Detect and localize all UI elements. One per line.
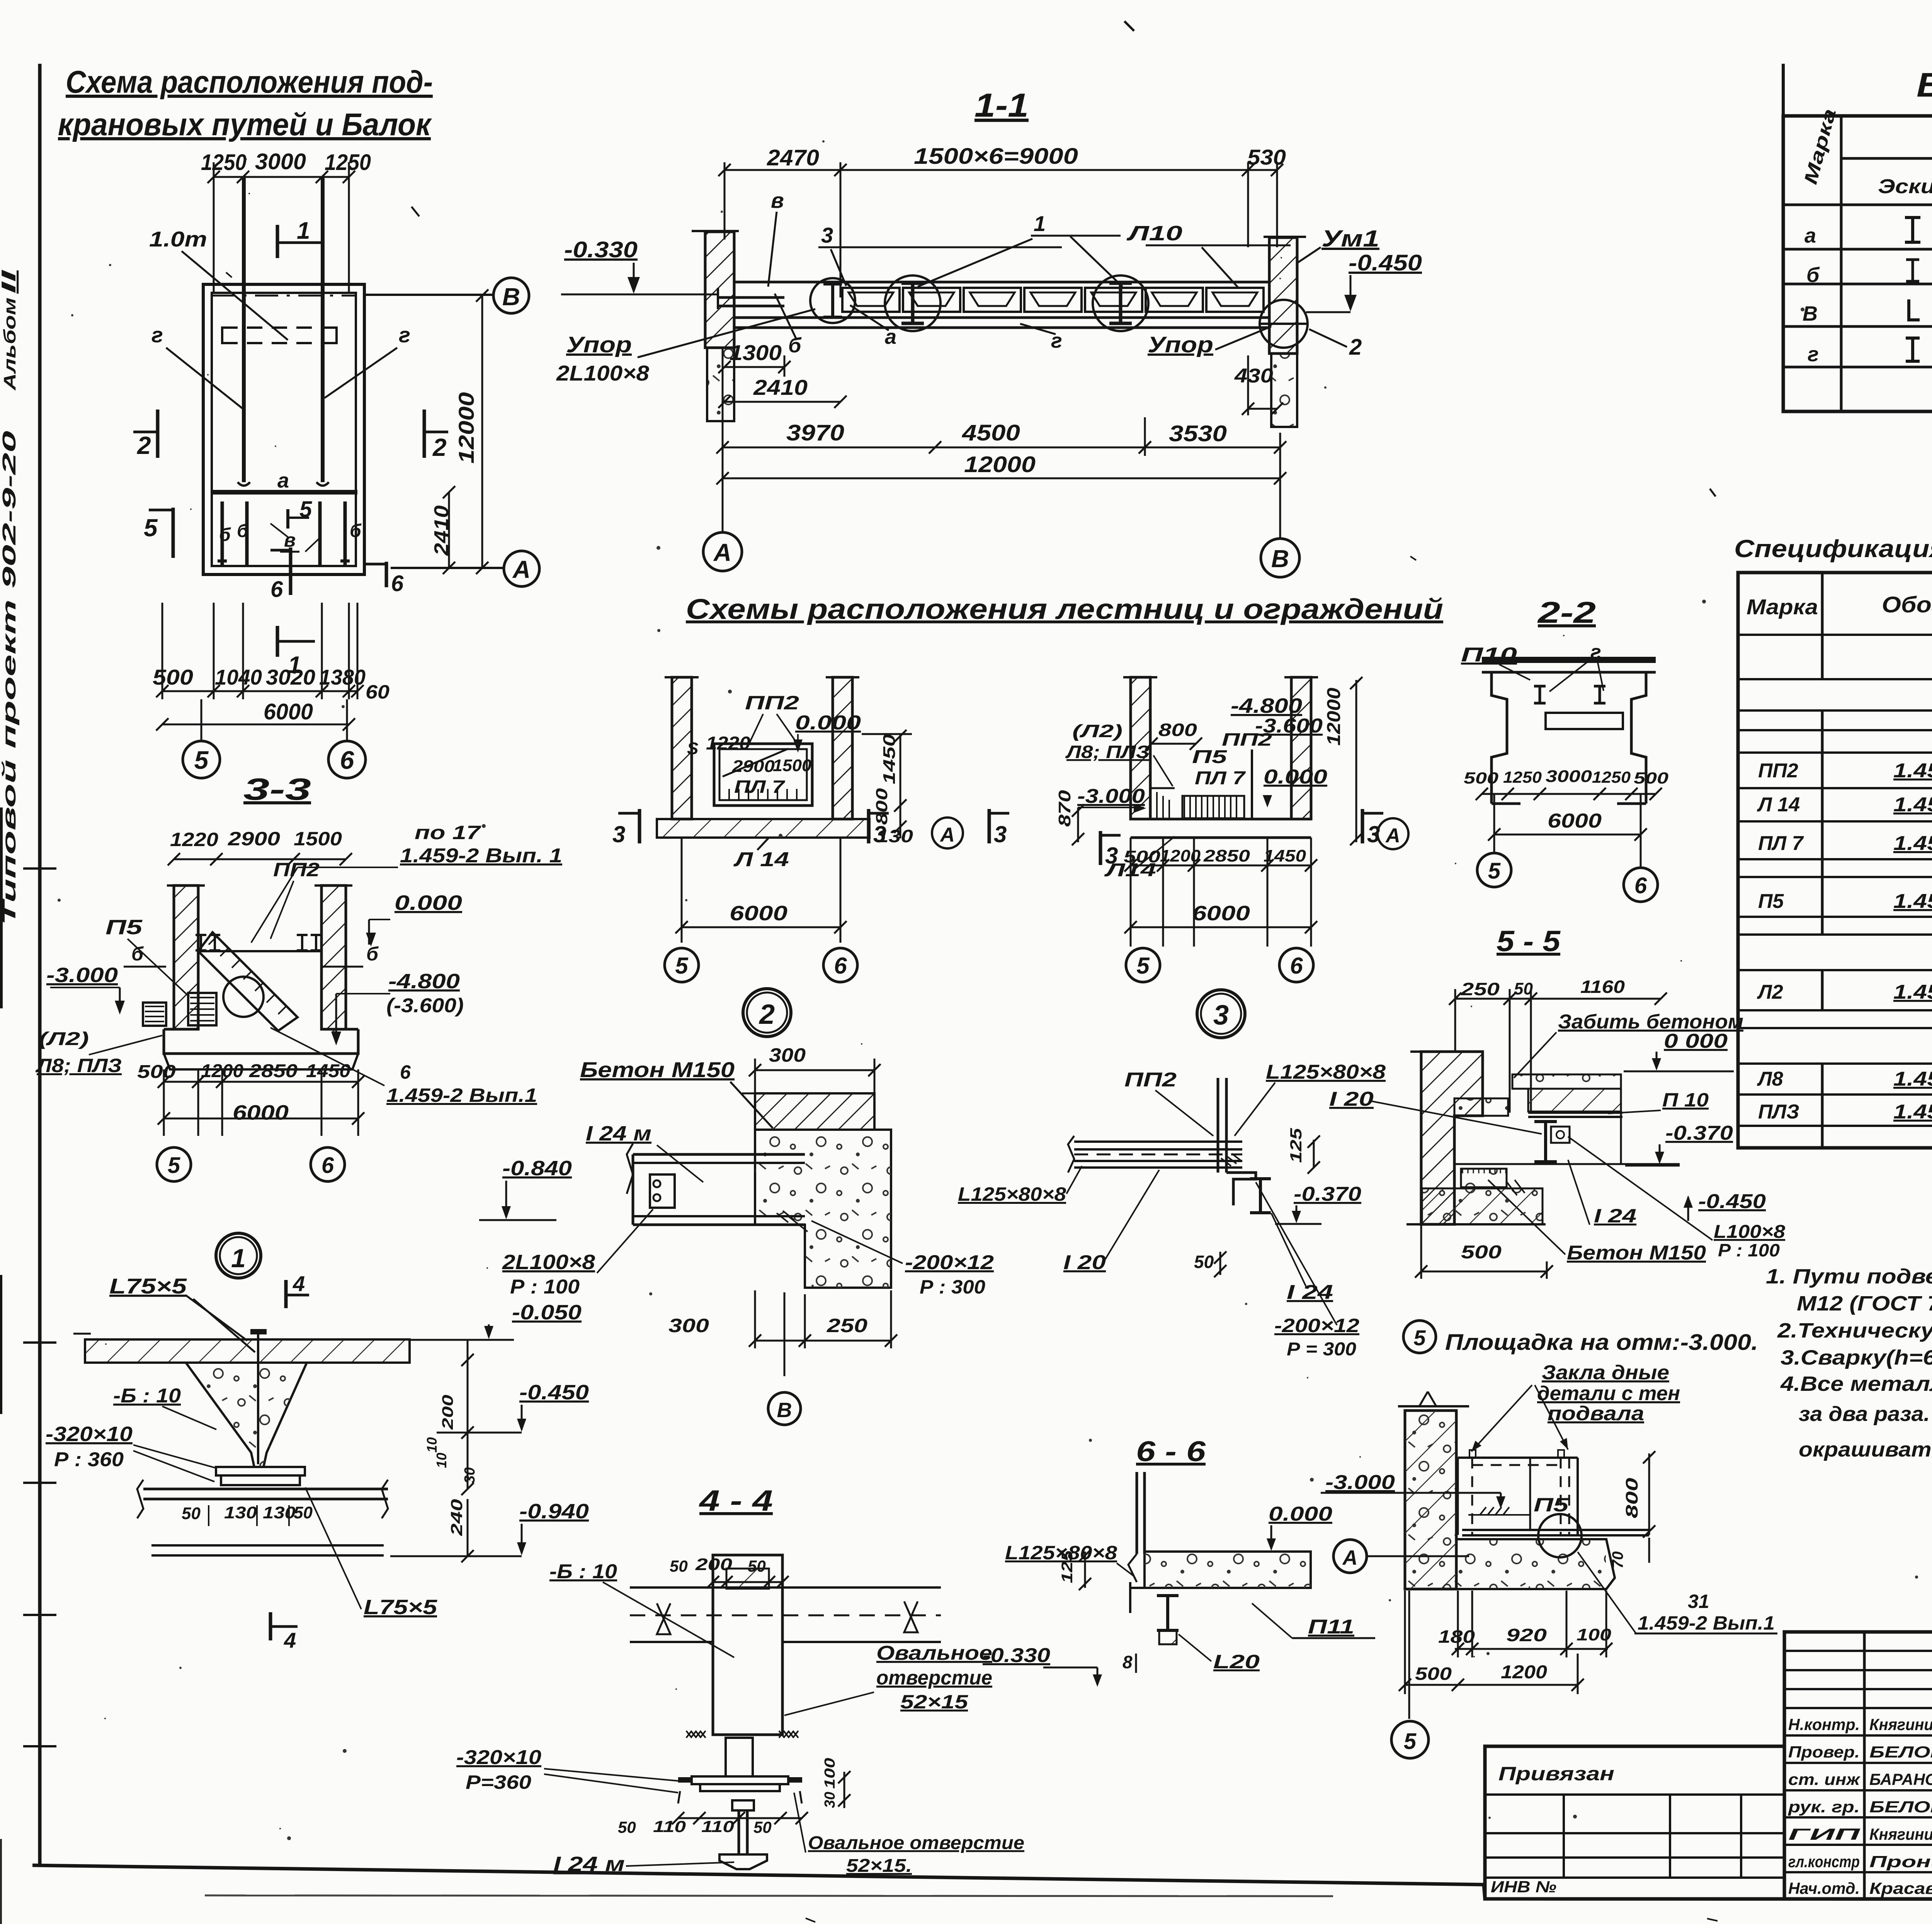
svg-text:0.000: 0.000 — [795, 712, 861, 734]
svg-text:Провер.: Провер. — [1788, 1743, 1860, 1761]
svg-text:БАРАНОВА: БАРАНОВА — [1869, 1770, 1932, 1788]
detail 1: labels -Б10 -320x10 е360 dims — [46, 1385, 437, 1619]
svg-text:0 000: 0 000 — [1664, 1030, 1728, 1052]
svg-text:52×15: 52×15 — [900, 1691, 968, 1713]
svg-text:12000: 12000 — [1324, 688, 1344, 746]
svg-text:50: 50 — [618, 1818, 636, 1836]
svg-text:500: 500 — [1464, 769, 1498, 787]
svg-text:6 - 6: 6 - 6 — [1136, 1435, 1206, 1467]
detail 1: circle mark 1 — [216, 1233, 261, 1278]
svg-text:в: в — [771, 188, 784, 212]
svg-text:1.459-2,: 1.459-2, — [1893, 832, 1932, 855]
svg-text:100: 100 — [822, 1758, 838, 1789]
plan view section mark 5 left — [144, 508, 173, 558]
svg-text:крановых путей и Балок: крановых путей и Балок — [58, 107, 432, 142]
svg-text:6000: 6000 — [264, 699, 313, 724]
plan view section mark 1 (bottom) — [277, 626, 315, 678]
svg-text:А: А — [939, 824, 955, 846]
section 1-1 bottom dims 3970 4500 3530 — [716, 348, 1286, 487]
svg-text:б: б — [131, 943, 144, 965]
svg-text:Упор: Упор — [566, 332, 632, 357]
svg-text:110: 110 — [653, 1817, 686, 1836]
svg-text:12000: 12000 — [964, 452, 1036, 477]
detail 1: section mark 4 bottom — [270, 1612, 298, 1652]
svg-text:Р : 300: Р : 300 — [920, 1276, 985, 1298]
svg-text:Княгиничев: Княгиничев — [1869, 1825, 1932, 1843]
svg-text:1.459-2 Вып.1: 1.459-2 Вып.1 — [1638, 1612, 1775, 1634]
svg-text:10: 10 — [424, 1437, 440, 1453]
svg-text:I 24 м: I 24 м — [553, 1853, 625, 1876]
svg-text:L75×5: L75×5 — [109, 1274, 187, 1298]
svg-text:50: 50 — [753, 1818, 772, 1836]
svg-text:Л2: Л2 — [1757, 981, 1783, 1003]
svg-text:-4.800: -4.800 — [388, 970, 460, 993]
plan view crane monorail beam (dashed) — [222, 328, 337, 343]
sheet bottom frame line — [32, 1865, 1932, 1899]
svg-text:1.459-2,: 1.459-2, — [1893, 981, 1932, 1003]
table Спецификация: row П5 — [1758, 876, 1932, 915]
svg-text:1300: 1300 — [730, 340, 782, 365]
detail B: labels Бетон М150 and 300 — [580, 1044, 881, 1128]
svg-text:6: 6 — [834, 953, 847, 979]
svg-text:5: 5 — [1413, 1326, 1426, 1350]
section 5-5: concrete fill under beam and base floor — [1406, 1169, 1546, 1224]
svg-text:2.Техническую спецификацию ста: 2.Техническую спецификацию стали см.на л… — [1777, 1319, 1932, 1342]
svg-text:1.459-2,: 1.459-2, — [1893, 1101, 1932, 1123]
left margin rotated stamp text: Типовой проект 902-9-20 Альбом II — [0, 269, 20, 925]
svg-text:240: 240 — [447, 1499, 466, 1536]
section 1-1 label 3 with leader — [818, 223, 1062, 286]
platform detail: labels Закладные детали стен подвала — [1471, 1361, 1680, 1451]
heading: Схемы расположения лестниц и ограждений — [686, 593, 1443, 625]
svg-text:2: 2 — [137, 432, 151, 459]
svg-text:1.459-2,: 1.459-2, — [1893, 890, 1932, 913]
svg-text:I 24 м: I 24 м — [586, 1122, 651, 1145]
table Спецификация: row Л8 — [1757, 1068, 1932, 1090]
svg-text:П5: П5 — [1534, 1494, 1569, 1516]
svg-text:130: 130 — [263, 1503, 296, 1522]
svg-text:ПЛЗ: ПЛЗ — [1758, 1101, 1799, 1123]
section 5-5: labels Забить бетоном 0.000 — [1514, 1011, 1743, 1078]
svg-text:300: 300 — [769, 1044, 806, 1066]
scheme 3: left dim 870 and right dim 12000 — [1055, 677, 1362, 845]
svg-text:-0.330: -0.330 — [983, 1644, 1050, 1667]
svg-text:по 17: по 17 — [415, 822, 481, 843]
plan view bottom dim 6000 — [156, 699, 355, 731]
svg-text:ПП2: ПП2 — [1124, 1069, 1177, 1091]
svg-text:Обозначение: Обозначение — [1882, 592, 1932, 617]
svg-text:-0.940: -0.940 — [519, 1500, 589, 1523]
svg-text:50: 50 — [670, 1557, 688, 1575]
svg-text:3-3: 3-3 — [243, 772, 311, 806]
svg-text:1500×6=9000: 1500×6=9000 — [914, 144, 1078, 169]
svg-text:3: 3 — [1213, 1000, 1229, 1031]
svg-text:1: 1 — [1034, 211, 1046, 236]
svg-text:1200: 1200 — [1160, 846, 1201, 865]
detail B: I24м beam with end plate — [627, 1144, 805, 1225]
section 1-1 I-beam hanger 2 (circled) — [1093, 275, 1148, 331]
svg-text:-0.370: -0.370 — [1665, 1122, 1733, 1144]
svg-text:Л 14: Л 14 — [733, 848, 789, 871]
svg-text:г: г — [151, 323, 163, 347]
svg-text:П 10: П 10 — [1662, 1089, 1709, 1111]
svg-text:2410: 2410 — [430, 505, 453, 556]
svg-text:-0.450: -0.450 — [519, 1381, 589, 1404]
section 3-3: top dims 1220 2900 1500 — [168, 828, 352, 865]
svg-text:430: 430 — [1234, 365, 1273, 387]
svg-text:920: 920 — [1506, 1625, 1547, 1645]
table Спецификация: row Л2 — [1757, 981, 1932, 1003]
svg-text:I 20: I 20 — [1063, 1251, 1106, 1274]
svg-text:-200×12: -200×12 — [905, 1251, 994, 1274]
svg-text:5: 5 — [299, 497, 312, 522]
svg-text:подвала: подвала — [1548, 1402, 1644, 1425]
svg-text:125: 125 — [1059, 1550, 1076, 1583]
svg-text:Закла дные: Закла дные — [1542, 1361, 1669, 1384]
scheme 2: section marks 3 and circle А — [612, 809, 1009, 848]
svg-text:500: 500 — [1634, 769, 1668, 787]
svg-text:Эскиз: Эскиз — [1878, 175, 1932, 198]
notes paragraph 1-4 — [1766, 1265, 1932, 1461]
svg-text:2470: 2470 — [767, 145, 819, 170]
svg-text:Р : 360: Р : 360 — [54, 1448, 124, 1471]
svg-text:П11: П11 — [1308, 1616, 1354, 1638]
svg-text:Упор: Упор — [1148, 332, 1213, 357]
section 3-3: stair flight and landing — [143, 932, 321, 1031]
svg-text:130: 130 — [224, 1503, 257, 1522]
svg-text:-0.450: -0.450 — [1698, 1190, 1766, 1213]
section 1-1 right wall (hatched) — [1264, 237, 1306, 427]
plan view top dash-dot line — [212, 295, 355, 297]
svg-text:5: 5 — [168, 1153, 180, 1178]
table Ведомость элементов: row а — [1804, 218, 1932, 247]
svg-text:Л 14: Л 14 — [1757, 794, 1800, 816]
plan view lower beams б — [218, 501, 350, 565]
svg-text:I 20: I 20 — [1329, 1088, 1374, 1110]
svg-text:б: б — [1806, 263, 1820, 287]
table Спецификация: row Л14 — [1757, 794, 1932, 816]
section 1-1 dim 1300 — [718, 340, 791, 377]
section 1-1 title — [975, 87, 1029, 124]
scheme 2: right vertical dims 1450 800 130 — [862, 730, 913, 846]
svg-text:1220: 1220 — [170, 829, 218, 850]
platform detail: bottom dims 180 920 100 / 500 1200 — [1399, 1591, 1612, 1694]
scheme 2: dim 6000 and axis circles — [665, 838, 857, 982]
svg-text:б: б — [219, 525, 231, 545]
svg-text:-0.370: -0.370 — [1294, 1183, 1361, 1205]
svg-text:II: II — [0, 269, 20, 294]
svg-text:1040: 1040 — [215, 665, 262, 689]
table Спецификация: grid — [1738, 573, 1932, 1148]
svg-text:5 - 5: 5 - 5 — [1497, 925, 1561, 958]
svg-text:4 - 4: 4 - 4 — [699, 1484, 773, 1517]
table Спецификация: row ПЛЗ — [1758, 1087, 1932, 1125]
svg-text:ст. инж: ст. инж — [1788, 1770, 1861, 1788]
svg-text:ПП2: ПП2 — [1222, 729, 1272, 750]
scheme 3: right section marks 3 and circle А — [1100, 809, 1408, 869]
section 5-5: title — [1497, 925, 1561, 958]
svg-text:1200: 1200 — [1501, 1662, 1547, 1683]
svg-text:10: 10 — [434, 1453, 449, 1468]
section 1-1 I-beam hanger 1 (circled) — [885, 275, 940, 331]
svg-text:1.459-2,: 1.459-2, — [1893, 1068, 1932, 1090]
section 1-1 top dims 2470 / 1500x6=9000 / 530 — [718, 144, 1286, 297]
svg-text:1. Пути подвесного крана крепя: 1. Пути подвесного крана крепятся болтам… — [1766, 1265, 1932, 1288]
svg-text:12000: 12000 — [454, 392, 478, 464]
svg-text:4500: 4500 — [962, 420, 1020, 445]
svg-text:2: 2 — [432, 433, 447, 461]
svg-text:500: 500 — [1415, 1664, 1452, 1684]
svg-text:52×15.: 52×15. — [846, 1856, 912, 1876]
scheme 3: stair details — [1151, 750, 1252, 819]
svg-text:Л10: Л10 — [1126, 222, 1182, 245]
svg-text:3020: 3020 — [266, 665, 315, 689]
svg-text:г: г — [1590, 641, 1601, 663]
detail PP2: railing post and rails — [1068, 1078, 1242, 1173]
svg-text:Бетон М150: Бетон М150 — [1567, 1242, 1706, 1264]
svg-text:250: 250 — [827, 1315, 867, 1336]
svg-text:3.Сварку(h=6мм) производить эл: 3.Сварку(h=6мм) производить электродами … — [1781, 1346, 1932, 1369]
svg-text:1-1: 1-1 — [975, 87, 1029, 124]
section 1-1 left wall (hatched) — [692, 231, 739, 421]
section 1-1 upor bracket left detail circle — [810, 278, 855, 323]
svg-text:1: 1 — [231, 1244, 246, 1273]
section 1-1 label Упор 2L100x8 left — [556, 309, 815, 385]
svg-text:(-3.600): (-3.600) — [386, 994, 464, 1017]
svg-text:50: 50 — [294, 1503, 313, 1522]
platform detail: axis circle 5 below — [1391, 1591, 1429, 1758]
svg-text:окрашивать.: окрашивать. — [1799, 1438, 1932, 1461]
svg-text:а: а — [277, 469, 289, 492]
svg-text:2L100×8: 2L100×8 — [556, 361, 650, 385]
svg-text:(Л2): (Л2) — [39, 1029, 89, 1049]
section 1-1 label г with leader — [1020, 324, 1062, 352]
platform detail: level -3.000 and circle А — [1321, 1471, 1530, 1573]
table Ведомость элементов: grid — [1783, 64, 1932, 411]
section 1-1 bottom dim 12000 — [716, 452, 1286, 484]
svg-text:Красавин: Красавин — [1869, 1879, 1932, 1897]
svg-text:2410: 2410 — [753, 375, 808, 399]
svg-text:2850: 2850 — [1203, 846, 1250, 865]
svg-text:2850: 2850 — [249, 1061, 298, 1081]
plan view bottom dims 500 1040 3020 1380 60 — [153, 603, 389, 703]
svg-text:А: А — [713, 539, 731, 566]
svg-text:L125×80×8: L125×80×8 — [1266, 1061, 1386, 1083]
svg-text:Р=360: Р=360 — [466, 1771, 531, 1793]
svg-text:L100×8: L100×8 — [1714, 1222, 1785, 1242]
section 1-1 dim 2410 — [718, 375, 847, 408]
section 1-1 label 2 with leader — [1309, 329, 1362, 360]
svg-text:-Б : 10: -Б : 10 — [549, 1560, 617, 1583]
svg-text:3000: 3000 — [1546, 767, 1592, 786]
section 3-3: axis circles 5 and 6 — [157, 1147, 345, 1181]
detail B: label I24м — [586, 1122, 703, 1182]
svg-text:Л8: Л8 — [1757, 1068, 1783, 1090]
svg-text:100: 100 — [1577, 1625, 1612, 1644]
section 3-3: bottom dims 500 1200 2850 1450 / 6000 — [137, 1061, 364, 1136]
scheme 2: big circle 2 — [743, 989, 791, 1037]
svg-text:5: 5 — [675, 953, 689, 979]
svg-text:180: 180 — [1438, 1627, 1475, 1647]
svg-text:4: 4 — [293, 1271, 305, 1296]
svg-text:Марка: Марка — [1747, 595, 1818, 619]
svg-text:4: 4 — [284, 1628, 296, 1652]
svg-text:1250: 1250 — [1592, 768, 1631, 786]
svg-text:125: 125 — [1287, 1128, 1305, 1163]
section 5-5: top dims 250 50 1160 — [1449, 977, 1667, 1113]
svg-text:В: В — [1271, 545, 1289, 573]
detail B: hatched slab and concrete block — [742, 1093, 891, 1288]
table Спецификация: title — [1734, 535, 1932, 563]
table Спецификация: row ПЛ7 — [1758, 818, 1932, 857]
svg-text:4.Все металлоконструкции окрас: 4.Все металлоконструкции окрасить маслян… — [1780, 1372, 1932, 1395]
svg-text:870: 870 — [1055, 790, 1074, 827]
svg-text:6: 6 — [391, 571, 404, 596]
section 5-5: circle 5 and caption Площадка на отм -3.000 — [1403, 1321, 1758, 1355]
svg-text:70: 70 — [1609, 1552, 1626, 1569]
svg-text:Пронин: Пронин — [1869, 1853, 1932, 1871]
detail PP2: dims 125 50 and levels — [958, 1128, 1361, 1360]
detail B: level -0.840 — [479, 1157, 572, 1220]
svg-text:0.000: 0.000 — [395, 891, 462, 914]
scheme 2: labels ПП2 0.000 1220 900 1500 ПЛ7 Л14 — [687, 692, 861, 871]
svg-text:-0.450: -0.450 — [1349, 250, 1422, 275]
svg-text:Н.контр.: Н.контр. — [1788, 1715, 1860, 1734]
svg-text:Альбом: Альбом — [0, 297, 19, 391]
section 5-5: wall and floor slab — [1410, 1052, 1680, 1224]
plan view top dimension 1250 3000 1250 — [201, 149, 371, 294]
title block: privyazan table — [1485, 1746, 1784, 1899]
svg-text:2900: 2900 — [732, 757, 775, 776]
platform detail: dashed platform П5 — [1458, 1450, 1649, 1557]
plan view label г left with leader — [151, 323, 244, 410]
svg-text:Привязан: Привязан — [1498, 1763, 1614, 1785]
svg-text:3: 3 — [994, 821, 1007, 847]
plan view section marks 2-2 — [133, 410, 448, 461]
svg-text:3970: 3970 — [786, 420, 844, 445]
svg-text:1250: 1250 — [1503, 768, 1542, 786]
svg-text:Княгиничев: Княгиничев — [1869, 1715, 1932, 1734]
svg-text:50: 50 — [182, 1504, 201, 1523]
svg-text:500: 500 — [1461, 1242, 1502, 1263]
scheme 3: axis circles 5 6 and big circle 3 — [1104, 836, 1313, 1038]
scheme 2: walls and slab — [657, 677, 869, 838]
section 1-1 dim 430 — [1234, 355, 1283, 415]
section 2-2: dim 6000 and axis circles — [1477, 794, 1658, 902]
svg-text:Л8; ПЛЗ: Л8; ПЛЗ — [36, 1055, 122, 1076]
section 1-1 label б with leader — [775, 294, 802, 357]
svg-text:б: б — [366, 943, 379, 965]
table Спецификация: row ПП2 — [1758, 760, 1932, 782]
svg-text:5: 5 — [1488, 858, 1501, 884]
svg-text:-3.000: -3.000 — [46, 964, 118, 987]
scheme 3: labels -4.800 -3.600 800 ПП2 П5 ПЛ7 0.000 -3.000 — [1065, 694, 1327, 813]
svg-text:БЕЛОВА: БЕЛОВА — [1869, 1798, 1932, 1816]
svg-text:L20: L20 — [1213, 1651, 1260, 1672]
svg-text:1200: 1200 — [201, 1061, 243, 1081]
plan view section mark 1 (top) — [277, 218, 321, 258]
sheet left frame line — [38, 64, 42, 1866]
detail 1: label L75x5 with leaders — [109, 1274, 255, 1352]
section 4-4: labels -Б10 50 200 50 and oval slot — [549, 1555, 992, 1715]
svg-text:800: 800 — [1622, 1477, 1641, 1518]
svg-text:110: 110 — [701, 1817, 734, 1836]
svg-text:3: 3 — [873, 821, 886, 847]
svg-text:500: 500 — [137, 1062, 176, 1082]
plan view section marks 6 — [270, 547, 404, 602]
svg-text:Схемы расположения лестниц и: Схемы расположения лестниц и ограждений — [686, 593, 1443, 625]
svg-text:530: 530 — [1247, 145, 1286, 169]
svg-text:М12 (ГОСТ 7798-70).: М12 (ГОСТ 7798-70). — [1797, 1292, 1932, 1315]
svg-text:БЕЛОВА: БЕЛОВА — [1869, 1743, 1932, 1761]
table Ведомость элементов: row г — [1808, 337, 1932, 367]
svg-text:6: 6 — [1634, 873, 1647, 898]
table Ведомость элементов: row б — [1806, 259, 1932, 287]
svg-text:5: 5 — [194, 746, 209, 774]
svg-text:0.000: 0.000 — [1269, 1503, 1332, 1525]
svg-text:-0.330: -0.330 — [564, 237, 638, 262]
title block: signature table grid — [1784, 1632, 1932, 1899]
svg-text:200: 200 — [695, 1555, 733, 1574]
section 6-6: labels L125x80x8 0.000 125 -0.330 8 L20 П11 — [983, 1503, 1375, 1687]
section 1-1 label 1 with leaders — [918, 211, 1122, 287]
svg-text:I 24: I 24 — [1287, 1281, 1333, 1304]
section 6-6: railing post and slab — [1128, 1472, 1311, 1613]
svg-text:за два раза. Ездовую поверхнос: за два раза. Ездовую поверхность подкран… — [1799, 1402, 1932, 1426]
svg-text:В: В — [502, 283, 520, 311]
left margin fold ticks — [23, 869, 56, 1746]
svg-text:5: 5 — [1136, 953, 1150, 979]
svg-text:2900: 2900 — [228, 828, 280, 850]
svg-text:-0.840: -0.840 — [502, 1157, 572, 1180]
svg-text:2-2: 2-2 — [1537, 595, 1596, 629]
svg-text:300: 300 — [668, 1315, 709, 1336]
svg-text:2L100×8: 2L100×8 — [502, 1251, 595, 1274]
svg-text:2: 2 — [759, 999, 775, 1030]
svg-text:Ведомость элементов: Ведомость элементов — [1917, 66, 1932, 104]
section 4-4: column base with weld marks and rail — [678, 1731, 802, 1869]
detail PP2: angle and I24 bracket right — [1221, 1154, 1271, 1213]
section 2-2: labels П10 and г — [1461, 641, 1604, 692]
svg-text:-320×10: -320×10 — [46, 1423, 133, 1446]
section 1-1 label Упор right — [1148, 326, 1271, 357]
svg-text:Бетон М150: Бетон М150 — [580, 1057, 735, 1082]
svg-text:б: б — [350, 521, 362, 541]
svg-text:1: 1 — [297, 218, 310, 244]
svg-text:ИНВ №: ИНВ № — [1491, 1878, 1556, 1896]
svg-text:ГИП: ГИП — [1788, 1825, 1861, 1843]
svg-text:г: г — [399, 323, 410, 347]
svg-text:П5: П5 — [1758, 890, 1784, 913]
svg-text:ПЛ 7: ПЛ 7 — [734, 777, 786, 797]
section 6-6: I-beam and rail below slab — [1157, 1596, 1179, 1644]
svg-text:1.459-2 Вып. 1: 1.459-2 Вып. 1 — [400, 845, 562, 867]
svg-text:ПЛ 7: ПЛ 7 — [1195, 768, 1246, 789]
platform detail: wall and floor — [1398, 1392, 1615, 1589]
svg-text:-320×10: -320×10 — [456, 1746, 541, 1769]
svg-text:50: 50 — [748, 1557, 766, 1575]
section 1-1 axis circles А and В — [703, 486, 1299, 577]
plan view vertical dim 2410 — [430, 486, 455, 574]
svg-text:250: 250 — [1461, 979, 1500, 999]
svg-text:6: 6 — [270, 577, 283, 602]
svg-text:Типовой проект 902-9-20: Типовой проект 902-9-20 — [0, 430, 20, 925]
svg-text:ПП2: ПП2 — [1758, 760, 1798, 782]
table Ведомость элементов: header texts — [1800, 107, 1932, 206]
svg-text:А: А — [512, 556, 531, 583]
detail 1: base plates and rail beam — [137, 1467, 388, 1555]
svg-text:6: 6 — [321, 1153, 334, 1178]
